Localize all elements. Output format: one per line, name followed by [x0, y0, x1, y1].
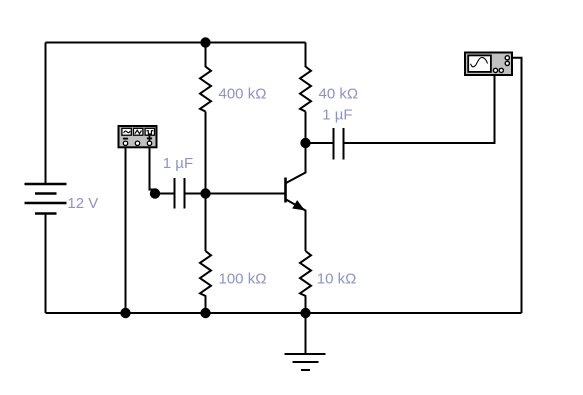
wire function generator plus terminal to C1 node [150, 147, 156, 194]
svg-text:10 kΩ: 10 kΩ [317, 270, 357, 287]
resistor R4 10 kOhm [300, 251, 311, 313]
svg-text:12 V: 12 V [67, 195, 98, 212]
wire left side top [45, 43, 47, 185]
wire base node to transistor base [206, 193, 285, 195]
node dot top rail / R1 [200, 37, 210, 47]
wire base column (R1 bottom to R3 top through base node) [205, 112, 207, 252]
svg-text:1 µF: 1 µF [163, 155, 193, 172]
svg-text:100 kΩ: 100 kΩ [219, 270, 267, 287]
node dot collector [300, 138, 310, 148]
wire top rail [46, 42, 306, 44]
node dot bottom rail R3 [200, 308, 210, 318]
wire left side bottom [45, 214, 47, 314]
oscilloscope XSC1 [465, 53, 512, 76]
wire oscilloscope B-channel to bottom rail [512, 58, 522, 313]
node dot generator output / C1 [150, 188, 160, 198]
node dot base [200, 188, 210, 198]
resistor R2 40 kOhm [300, 43, 311, 112]
wire R2 bottom to collector node [305, 112, 307, 144]
capacitor C1 1uF plates [175, 178, 185, 209]
svg-text:40 kΩ: 40 kΩ [319, 86, 359, 103]
node dot bottom rail ground [300, 308, 310, 318]
capacitor C2 1uF plates [334, 128, 344, 160]
resistor R1 400 kOhm [200, 43, 211, 112]
wire C1 left lead [155, 193, 175, 195]
wire collector node to C2 left plate [306, 142, 334, 144]
svg-text:400 kΩ: 400 kΩ [219, 86, 267, 103]
ground symbol [285, 313, 326, 370]
wire C1 right lead to base node [185, 193, 206, 195]
function generator XFG1 [119, 126, 157, 147]
wire C2 right plate to oscilloscope A-channel [344, 75, 495, 143]
resistor R3 100 kOhm [200, 251, 211, 313]
battery V1 12V [25, 184, 67, 214]
svg-text:1 µF: 1 µF [322, 106, 352, 123]
wire function generator minus terminal to bottom rail [125, 147, 127, 313]
node dot bottom rail generator [120, 308, 130, 318]
transistor Q1 NPN [286, 143, 306, 251]
wire bottom rail [46, 312, 522, 314]
